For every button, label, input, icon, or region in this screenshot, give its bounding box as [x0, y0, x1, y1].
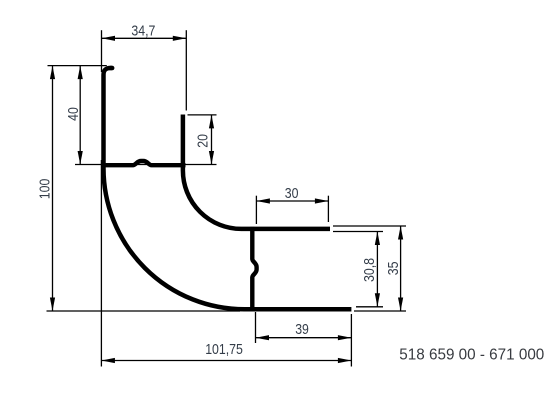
arrow 30,8 bottom	[375, 293, 380, 307]
arrow 101,75 right	[338, 358, 352, 363]
extension line 39 left	[255, 312, 257, 343]
extension line 30 left	[255, 196, 257, 224]
arrow 35 top	[398, 226, 403, 240]
svg-text:40: 40	[66, 107, 82, 121]
profile lip rounded tip	[111, 66, 113, 71]
arrow 34,7 left	[102, 36, 116, 41]
label 30,8	[362, 258, 378, 282]
arrow 39 right	[338, 335, 352, 340]
extension line 35 top	[333, 225, 406, 227]
svg-text:30: 30	[285, 186, 299, 202]
arrow 40 bottom	[78, 151, 83, 165]
profile outer contour (lip, left wall, outer arc, bottom wall)	[104, 68, 352, 309]
label 39	[295, 322, 309, 338]
arrow 30 right	[315, 198, 329, 203]
extension line 39/101,75 right	[350, 314, 352, 367]
arrow 101,75 left	[101, 358, 115, 363]
part number 518 659 00 - 671 000	[399, 346, 544, 363]
dimension line 39	[256, 337, 352, 339]
arrow 20 bottom	[209, 151, 214, 165]
svg-text:101,75: 101,75	[205, 342, 243, 358]
label 34,7	[131, 23, 155, 39]
label 100	[37, 179, 53, 200]
svg-text:30,8: 30,8	[362, 258, 378, 282]
svg-text:35: 35	[386, 262, 402, 276]
svg-text:100: 100	[37, 179, 53, 200]
label 35	[386, 262, 402, 276]
arrow 40 top	[78, 66, 83, 80]
extension line 34,7 right	[185, 30, 187, 110]
extension line 30 right	[327, 196, 329, 222]
dimension line 101,75	[101, 360, 351, 362]
label 30	[285, 186, 299, 202]
extension line 101,75 left	[100, 160, 102, 367]
extension line 35 bottom	[354, 310, 406, 312]
dimension line 30	[256, 200, 328, 202]
extension line 30,8 top	[333, 231, 383, 233]
arrow 35 bottom	[398, 298, 403, 312]
label 40	[66, 107, 82, 121]
extension line 30,8 bottom	[356, 306, 383, 308]
arrow 20 top	[209, 115, 214, 128]
extension line 34,7 left	[101, 30, 103, 72]
extension line bottom (100)	[47, 310, 241, 312]
svg-text:20: 20	[196, 134, 212, 148]
arrow 34,7 right	[173, 36, 187, 41]
dimension line 30,8	[376, 232, 378, 307]
extension line top (40/100)	[48, 65, 107, 67]
extension line 20 top	[188, 114, 217, 116]
label 101,75	[205, 342, 243, 358]
extension line bottom of 40 / bottom of 20	[75, 164, 217, 166]
dimension line 20	[211, 115, 213, 165]
arrow 39 left	[256, 335, 270, 340]
svg-text:34,7: 34,7	[131, 23, 155, 39]
profile top web with bump	[101, 161, 185, 165]
dimension line 100	[52, 66, 54, 311]
arrow 30,8 top	[375, 232, 380, 246]
dimension line 40	[79, 66, 81, 165]
profile right web with bump	[252, 227, 256, 309]
arrow 30 left	[256, 198, 270, 203]
dimension line 35	[400, 226, 402, 311]
arrow 100 bottom	[50, 298, 55, 312]
arrow 100 top	[50, 66, 55, 80]
svg-text:518 659 00 - 671 000: 518 659 00 - 671 000	[399, 346, 544, 363]
profile inner contour (stub, inner arc, top flange)	[183, 115, 330, 229]
dimension line 34,7	[102, 37, 187, 39]
svg-text:39: 39	[295, 322, 309, 338]
label 20	[196, 134, 212, 148]
